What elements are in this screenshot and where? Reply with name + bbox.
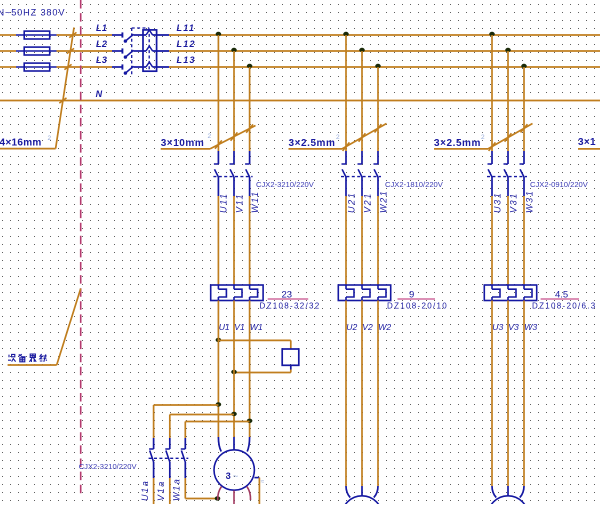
svg-text:N: N bbox=[96, 89, 103, 99]
svg-text:CJX2-0910/220V: CJX2-0910/220V bbox=[530, 180, 589, 189]
svg-text:2: 2 bbox=[208, 133, 212, 140]
svg-text:V1: V1 bbox=[234, 322, 245, 332]
svg-text:U2: U2 bbox=[346, 322, 357, 332]
svg-text:CJX2-3210/220V: CJX2-3210/220V bbox=[79, 462, 138, 471]
svg-text:CJX2-3210/220V: CJX2-3210/220V bbox=[256, 180, 315, 189]
svg-text:V3: V3 bbox=[508, 322, 519, 332]
svg-text:L12: L12 bbox=[177, 39, 196, 49]
svg-text:U31: U31 bbox=[492, 192, 502, 213]
svg-text:V2: V2 bbox=[362, 322, 373, 332]
svg-text:U1a: U1a bbox=[140, 480, 150, 501]
svg-text:~: ~ bbox=[233, 471, 239, 482]
svg-text:W2: W2 bbox=[378, 322, 391, 332]
svg-text:V21: V21 bbox=[362, 192, 372, 213]
svg-text:3×2.5mm: 3×2.5mm bbox=[434, 138, 481, 149]
svg-text:2: 2 bbox=[336, 134, 340, 141]
svg-text:L1: L1 bbox=[96, 23, 107, 33]
svg-text:DZ108-20/10: DZ108-20/10 bbox=[387, 302, 448, 311]
svg-text:V31: V31 bbox=[508, 192, 518, 213]
svg-text:DZ108-20/6.3: DZ108-20/6.3 bbox=[532, 302, 597, 311]
svg-text:W3: W3 bbox=[524, 322, 537, 332]
svg-text:W31: W31 bbox=[524, 190, 534, 213]
svg-text:U21: U21 bbox=[346, 192, 356, 213]
svg-text:L3: L3 bbox=[96, 55, 107, 65]
svg-text:2: 2 bbox=[48, 135, 52, 142]
svg-text:V1a: V1a bbox=[156, 480, 166, 501]
svg-text:L2: L2 bbox=[96, 39, 107, 49]
svg-text:W1: W1 bbox=[250, 322, 263, 332]
svg-text:3×2.5mm: 3×2.5mm bbox=[289, 138, 336, 149]
svg-text:3×10mm: 3×10mm bbox=[161, 138, 205, 149]
svg-text:W21: W21 bbox=[378, 190, 388, 213]
svg-text:3×1: 3×1 bbox=[578, 137, 596, 148]
svg-text:2: 2 bbox=[481, 134, 485, 141]
svg-text:W1a: W1a bbox=[172, 478, 182, 501]
svg-text:CJX2-1810/220V: CJX2-1810/220V bbox=[385, 180, 444, 189]
svg-text:U1: U1 bbox=[219, 322, 230, 332]
svg-text:3: 3 bbox=[226, 471, 231, 481]
svg-text:DZ108-32/32: DZ108-32/32 bbox=[260, 302, 321, 311]
svg-text:L13: L13 bbox=[177, 55, 196, 65]
svg-text:≈: ≈ bbox=[261, 479, 265, 486]
svg-text:U3: U3 bbox=[492, 322, 503, 332]
svg-text:V11: V11 bbox=[234, 193, 244, 213]
svg-text:4×16mm: 4×16mm bbox=[0, 138, 42, 149]
svg-text:N~50HZ 380V: N~50HZ 380V bbox=[0, 7, 65, 17]
svg-text:L11: L11 bbox=[177, 23, 196, 33]
svg-text:W11: W11 bbox=[250, 190, 260, 213]
svg-text:U11: U11 bbox=[219, 192, 229, 213]
